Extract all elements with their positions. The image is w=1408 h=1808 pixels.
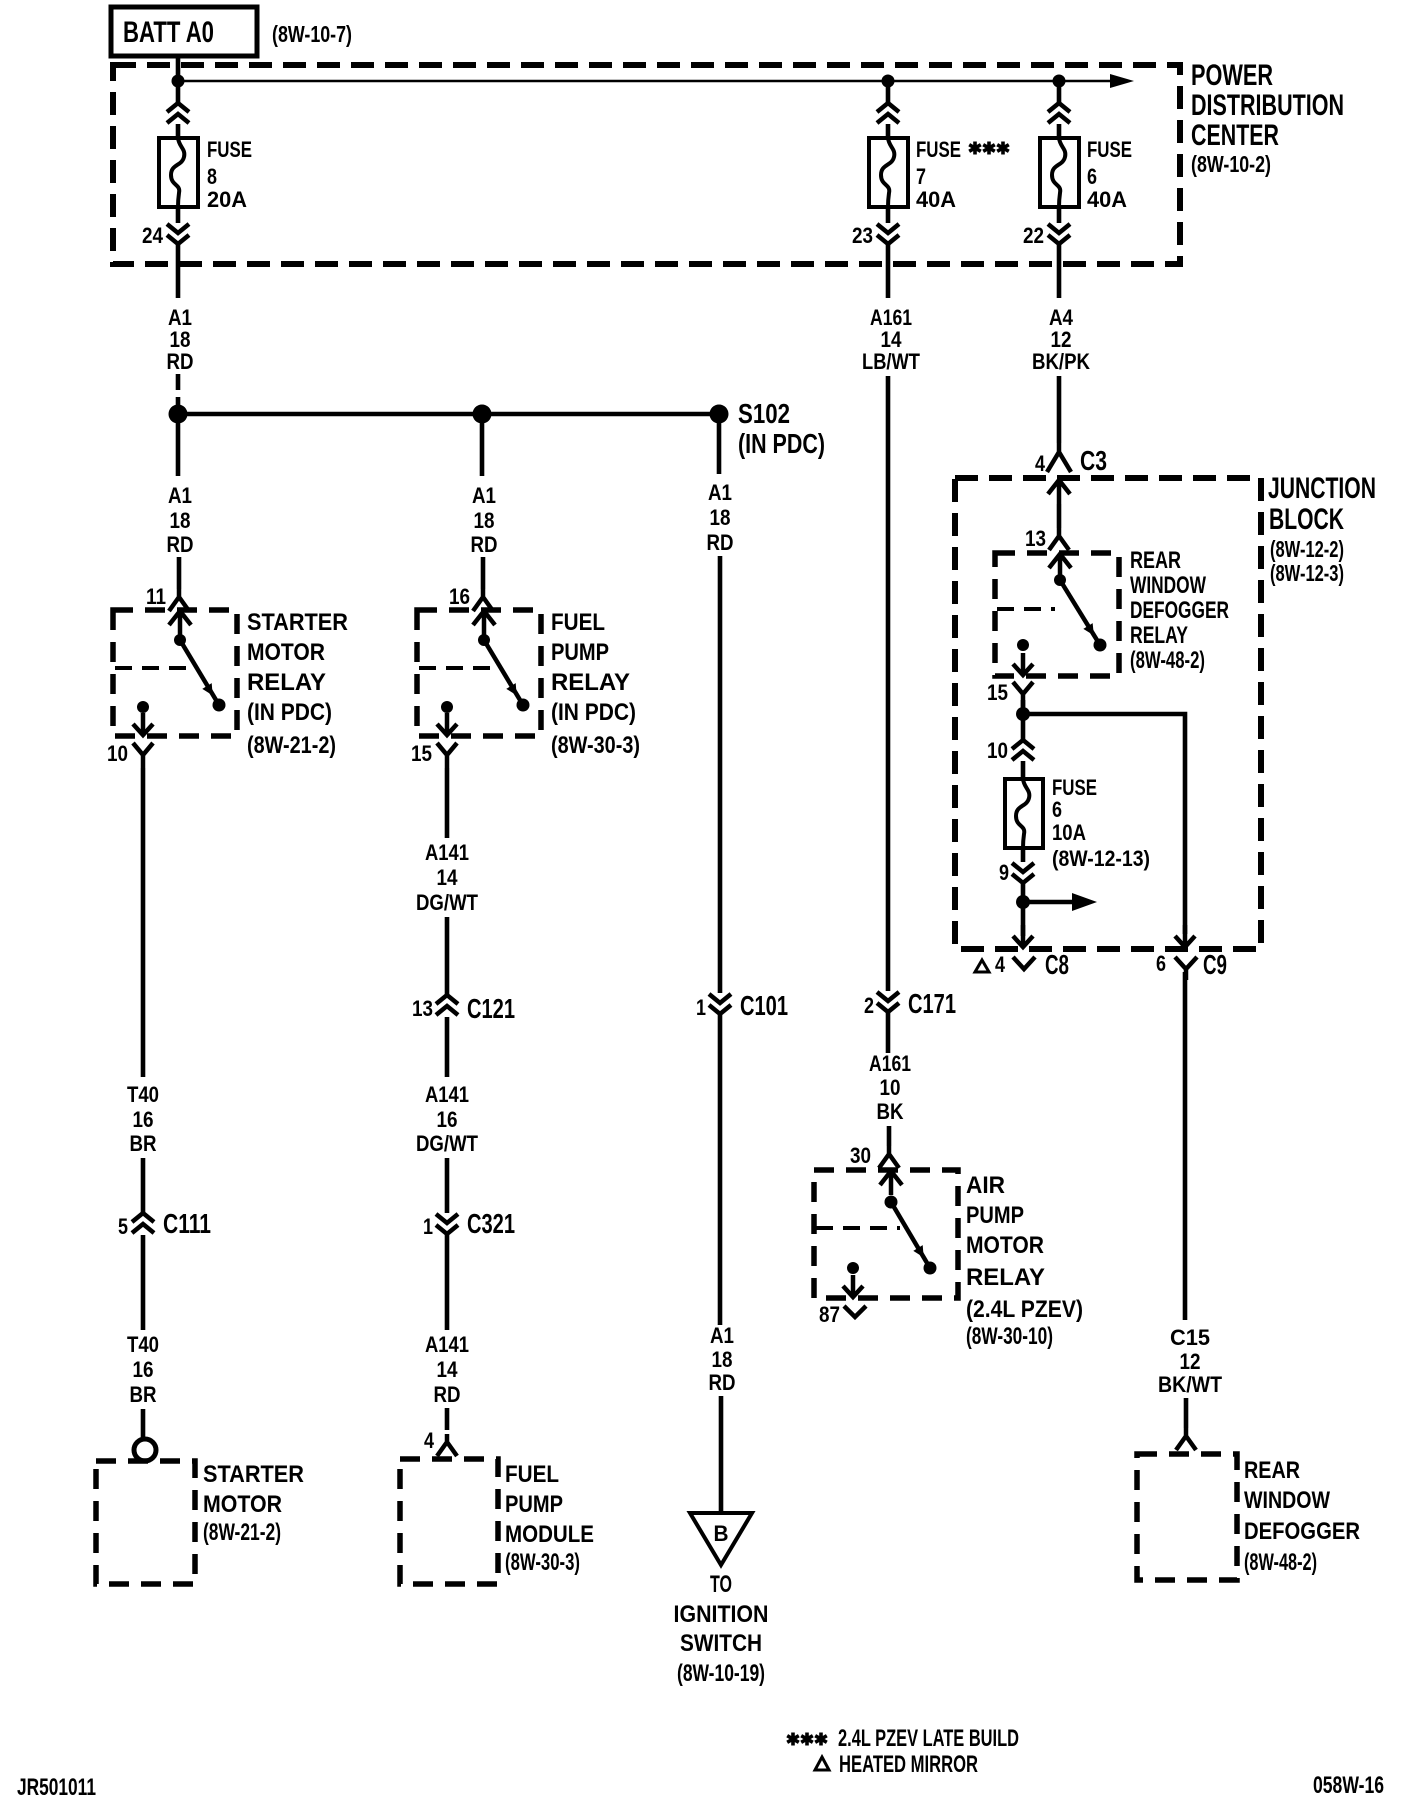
wire: branch arrow right [1023, 900, 1072, 905]
wire: defogger relay output [1021, 700, 1026, 740]
svg-text:PUMP: PUMP [966, 1202, 1024, 1229]
svg-text:PUMP: PUMP [551, 639, 609, 666]
svg-text:9: 9 [999, 860, 1009, 885]
svg-text:CENTER: CENTER [1191, 119, 1279, 152]
svg-text:FUEL: FUEL [505, 1461, 559, 1488]
wire: C121 down [445, 1017, 450, 1077]
svg-text:1: 1 [423, 1214, 433, 1239]
svg-text:(8W-10-19): (8W-10-19) [677, 1660, 765, 1687]
wire below JB fuse [1021, 848, 1026, 862]
svg-text:POWER: POWER [1191, 59, 1273, 92]
fuse F6 body [1040, 138, 1079, 207]
svg-text:BK/PK: BK/PK [1032, 349, 1090, 374]
svg-text:20A: 20A [207, 187, 247, 212]
svg-text:(8W-30-3): (8W-30-3) [551, 732, 640, 759]
connector C121 chevrons [436, 995, 458, 1015]
svg-text:4: 4 [424, 1428, 435, 1453]
connector fork pin 10 [133, 743, 153, 768]
wire: S102 to ignition feed branch [717, 423, 722, 474]
svg-text:13: 13 [1025, 526, 1046, 551]
connector C111 chevrons [132, 1213, 154, 1233]
svg-text:8: 8 [207, 164, 217, 189]
svg-text:(8W-48-2): (8W-48-2) [1244, 1549, 1317, 1576]
svg-text:SWITCH: SWITCH [680, 1630, 762, 1657]
svg-text:DEFOGGER: DEFOGGER [1130, 597, 1229, 624]
connector chevrons above fuse 7 [877, 103, 899, 123]
svg-text:A1: A1 [708, 480, 732, 505]
connector fork pin 30 [879, 1146, 899, 1168]
defogger relay NO contact node [1094, 639, 1107, 652]
wire: down to C101 [718, 556, 723, 993]
connector chevrons pin 9 [1012, 863, 1034, 883]
connector fork pin 15 [437, 743, 457, 768]
wire into fuse 6 [1057, 124, 1062, 139]
svg-text:058W-16: 058W-16 [1313, 1772, 1384, 1799]
svg-text:(IN PDC): (IN PDC) [738, 428, 825, 459]
wire: into C111 [141, 1158, 146, 1213]
heated mirror footnote triangle at C8 [975, 960, 989, 972]
svg-text:JUNCTION: JUNCTION [1268, 472, 1376, 505]
svg-text:FUEL: FUEL [551, 609, 605, 636]
svg-text:AIR: AIR [966, 1172, 1005, 1199]
svg-text:RD: RD [707, 530, 734, 555]
node: bus junction at fuse 8 [172, 75, 185, 88]
svg-text:BLOCK: BLOCK [1269, 503, 1344, 536]
svg-text:(IN PDC): (IN PDC) [247, 699, 332, 726]
air pump relay switch blade [891, 1202, 930, 1268]
node: splice junction middle [473, 405, 492, 424]
svg-text:4: 4 [1035, 451, 1046, 476]
svg-text:(8W-21-2): (8W-21-2) [247, 732, 336, 759]
svg-text:JR501011: JR501011 [17, 1774, 96, 1801]
svg-text:C8: C8 [1045, 949, 1069, 980]
svg-text:A161: A161 [869, 1051, 911, 1076]
wire: starter relay pin 10 to C111 [141, 768, 146, 1077]
fuse F8 body [159, 138, 198, 207]
svg-text:MOTOR: MOTOR [247, 639, 325, 666]
air pump relay common contact node [885, 1196, 898, 1209]
load: rear window defogger dashed box [1137, 1454, 1237, 1580]
svg-text:6: 6 [1052, 797, 1062, 822]
svg-text:RD: RD [471, 532, 498, 557]
svg-text:2.4L PZEV LATE BUILD: 2.4L PZEV LATE BUILD [838, 1725, 1019, 1752]
connector fork C3 [1047, 443, 1071, 472]
wire below fuse 8 [176, 207, 181, 223]
svg-text:WINDOW: WINDOW [1130, 572, 1206, 599]
svg-text:87: 87 [819, 1302, 840, 1327]
svg-text:16: 16 [437, 1107, 458, 1132]
svg-text:12: 12 [1180, 1349, 1201, 1374]
wire: into fuel pump relay pin 16 [481, 557, 486, 589]
connector chevrons below fuse 8 (pin 24) [167, 224, 189, 244]
C8 exit arrow at JB edge [1013, 925, 1033, 947]
relay: fuel pump relay dashed box [417, 610, 541, 736]
svg-text:16: 16 [133, 1107, 154, 1132]
svg-text:STARTER: STARTER [247, 609, 348, 636]
svg-text:10A: 10A [1052, 820, 1086, 845]
node: bus junction at fuse 7 [882, 75, 895, 88]
wire: A161 down to C171 [886, 376, 891, 991]
defogger relay coil node [1017, 639, 1029, 651]
wire: C111 down [141, 1235, 146, 1330]
wire: S102 to starter relay branch [176, 423, 181, 476]
svg-text:C9: C9 [1203, 949, 1227, 980]
wire below fuse 7 [886, 207, 891, 223]
wire: dashed continuation to splice [176, 374, 181, 410]
wire: into off-page triangle B [719, 1396, 724, 1513]
node: splice junction left [169, 405, 188, 424]
bus arrowhead [1110, 74, 1134, 88]
wire: BATT A0 drop to bus [176, 56, 181, 103]
svg-text:(8W-21-2): (8W-21-2) [203, 1519, 281, 1546]
svg-text:MOTOR: MOTOR [203, 1491, 282, 1518]
wire below fuse 6 [1057, 207, 1062, 223]
defogger relay coil output arrow pin 15 [1013, 653, 1033, 675]
connector C9 fork [1175, 957, 1197, 980]
wire: into rear defogger [1184, 1398, 1189, 1428]
svg-text:A141: A141 [425, 840, 469, 865]
fuel pump relay coil node [441, 701, 453, 713]
svg-text:15: 15 [411, 741, 432, 766]
svg-text:RELAY: RELAY [966, 1264, 1045, 1291]
fuel pump relay switch blade [484, 640, 523, 705]
wire: fuse 6 output leaving PDC [1057, 245, 1062, 298]
air pump relay coil output arrow pin 87 [843, 1275, 863, 1297]
connector chevrons pin 10 [1012, 740, 1034, 760]
svg-text:18: 18 [474, 508, 495, 533]
svg-text:10: 10 [880, 1075, 901, 1100]
air pump relay coil node [847, 1262, 859, 1274]
svg-text:1: 1 [696, 995, 706, 1020]
defogger relay pin 13 entry arrow [1049, 554, 1071, 578]
svg-text:10: 10 [107, 741, 128, 766]
connector C8 fork [1013, 957, 1035, 969]
svg-text:C171: C171 [908, 988, 956, 1019]
relay: starter motor relay dashed box [113, 610, 237, 736]
relay: rear window defogger relay dashed box [995, 553, 1119, 676]
svg-text:STARTER: STARTER [203, 1461, 304, 1488]
svg-text:40A: 40A [1087, 187, 1127, 212]
svg-text:A141: A141 [425, 1332, 469, 1357]
svg-text:15: 15 [987, 680, 1008, 705]
wire into JB fuse 6 [1021, 761, 1026, 780]
svg-text:A1: A1 [168, 483, 192, 508]
wire: fuse 7 output leaving PDC [886, 245, 891, 298]
connector chevrons above fuse 8 [167, 103, 189, 123]
svg-text:(8W-48-2): (8W-48-2) [1130, 647, 1205, 674]
wire: bus to fuse 6 [1057, 81, 1062, 104]
svg-text:(8W-30-3): (8W-30-3) [505, 1549, 580, 1576]
svg-text:T40: T40 [127, 1082, 159, 1107]
svg-text:RELAY: RELAY [1130, 622, 1188, 649]
svg-text:16: 16 [449, 584, 470, 609]
svg-text:BK: BK [877, 1099, 904, 1124]
svg-text:DISTRIBUTION: DISTRIBUTION [1191, 89, 1344, 122]
power distribution center dashed box [113, 65, 1180, 264]
fuel pump relay NO contact node [517, 699, 530, 712]
junction block C3 entry arrow [1048, 480, 1070, 504]
footnote: 2.4L PZEV late build stars [787, 1733, 799, 1746]
svg-text:C321: C321 [467, 1208, 515, 1239]
starter relay internal divider [115, 666, 196, 670]
wire: into C121 [445, 917, 450, 995]
svg-text:WINDOW: WINDOW [1244, 1487, 1330, 1514]
svg-text:10: 10 [987, 738, 1008, 763]
svg-text:18: 18 [170, 508, 191, 533]
wire into fuse 7 [886, 124, 891, 139]
svg-text:RD: RD [709, 1370, 736, 1395]
svg-text:24: 24 [142, 223, 164, 248]
svg-text:C111: C111 [163, 1208, 211, 1239]
svg-text:C3: C3 [1080, 445, 1107, 476]
wire: fuse 8 output leaving PDC [176, 245, 181, 298]
starter relay switch blade [180, 640, 219, 705]
connector fork pin 13 [1049, 528, 1069, 550]
svg-text:C101: C101 [740, 990, 788, 1021]
svg-text:MODULE: MODULE [505, 1521, 594, 1548]
svg-text:18: 18 [712, 1347, 733, 1372]
svg-text:14: 14 [437, 1357, 459, 1382]
svg-text:RELAY: RELAY [551, 669, 630, 696]
svg-text:RD: RD [434, 1382, 461, 1407]
wire into fuse 8 [176, 124, 181, 139]
svg-text:11: 11 [146, 584, 166, 609]
svg-text:6: 6 [1156, 951, 1166, 976]
svg-text:(IN PDC): (IN PDC) [551, 699, 636, 726]
fuel pump relay internal divider [419, 666, 500, 670]
svg-text:T40: T40 [127, 1332, 159, 1357]
node: branch to other circuits [1016, 895, 1030, 909]
svg-text:LB/WT: LB/WT [862, 349, 920, 374]
node S102 (IN PDC) [710, 405, 729, 424]
svg-text:5: 5 [118, 1214, 128, 1239]
svg-text:30: 30 [850, 1143, 871, 1168]
air pump relay NO contact node [924, 1262, 937, 1275]
off-page connector triangle B [690, 1513, 752, 1565]
wire: C9 down to rear defogger [1183, 972, 1188, 1320]
load: fuel pump module dashed box [400, 1459, 498, 1584]
wire: into air pump relay pin 30 [887, 1126, 892, 1146]
wire: fuel pump relay pin 15 down [445, 768, 450, 838]
starter relay common contact node [174, 634, 186, 646]
fuel pump relay common contact node [478, 634, 490, 646]
svg-text:DEFOGGER: DEFOGGER [1244, 1518, 1360, 1545]
svg-text:IGNITION: IGNITION [674, 1601, 769, 1628]
connector fork pin 15 (JB) [1013, 682, 1033, 707]
svg-text:PUMP: PUMP [505, 1491, 563, 1518]
wire: to starter motor terminal [141, 1409, 146, 1439]
svg-text:22: 22 [1023, 223, 1044, 248]
starter relay pin 11 entry arrow [169, 611, 191, 635]
svg-text:16: 16 [133, 1357, 154, 1382]
svg-text:BATT A0: BATT A0 [123, 16, 214, 49]
junction block dashed box [955, 478, 1261, 949]
wire: S102 to fuel pump relay branch [480, 423, 485, 476]
fuel pump relay coil output arrow pin 15 [437, 713, 457, 735]
wire: C3 to defogger relay [1057, 504, 1062, 528]
connector chevrons below fuse 7 (pin 23) [877, 224, 899, 244]
svg-text:DG/WT: DG/WT [416, 890, 478, 915]
wire: C171 to air pump relay [886, 1013, 891, 1053]
svg-text:BR: BR [130, 1382, 157, 1407]
svg-text:2: 2 [864, 993, 874, 1018]
fuse: junction block fuse 6 10A body [1005, 779, 1043, 848]
svg-text:(2.4L PZEV): (2.4L PZEV) [966, 1296, 1083, 1323]
svg-text:REAR: REAR [1130, 547, 1181, 574]
svg-text:TO: TO [710, 1571, 732, 1598]
wire: C321 to fuel pump module [445, 1235, 450, 1330]
svg-text:DG/WT: DG/WT [416, 1131, 478, 1156]
svg-text:(8W-12-2): (8W-12-2) [1270, 536, 1344, 562]
wire: A4 down to C3 [1057, 376, 1062, 443]
svg-text:FUSE: FUSE [1087, 137, 1132, 162]
connector C321 chevrons [436, 1214, 458, 1234]
wire: PDC internal bus from BATT [178, 80, 1112, 83]
svg-text:14: 14 [437, 865, 459, 890]
svg-text:6: 6 [1087, 164, 1097, 189]
svg-text:7: 7 [916, 164, 926, 189]
defogger relay internal divider [997, 607, 1055, 611]
svg-text:13: 13 [412, 996, 433, 1021]
svg-text:HEATED MIRROR: HEATED MIRROR [839, 1751, 978, 1778]
starter relay NO contact node [213, 699, 226, 712]
starter relay coil node [137, 701, 149, 713]
svg-text:(8W-12-13): (8W-12-13) [1052, 846, 1150, 871]
starter relay coil output arrow pin 10 [133, 713, 153, 735]
svg-text:A1: A1 [472, 483, 496, 508]
connector fork at fuel pump module [437, 1434, 457, 1456]
svg-text:18: 18 [710, 505, 731, 530]
svg-text:A1: A1 [710, 1323, 734, 1348]
svg-text:23: 23 [852, 223, 873, 248]
connector C101 chevrons [709, 994, 731, 1014]
starter motor terminal ring [134, 1439, 156, 1461]
svg-text:MOTOR: MOTOR [966, 1232, 1044, 1259]
wire: bus to fuse 7 [886, 81, 891, 104]
svg-text:BR: BR [130, 1131, 157, 1156]
svg-text:A141: A141 [425, 1082, 469, 1107]
svg-text:(8W-30-10): (8W-30-10) [966, 1323, 1053, 1350]
C9 exit arrow at JB edge [1175, 925, 1195, 947]
fuel pump relay pin 16 entry arrow [473, 611, 495, 635]
defogger relay switch blade [1060, 580, 1100, 645]
svg-text:RELAY: RELAY [247, 669, 326, 696]
svg-text:B: B [714, 1521, 729, 1546]
connector C171 chevrons [877, 992, 899, 1012]
fuse F7 body [869, 138, 908, 207]
air pump relay pin 30 entry arrow [880, 1171, 902, 1195]
svg-text:FUSE: FUSE [916, 137, 961, 162]
wire: JB fuse output down to C8 [1021, 884, 1026, 936]
svg-text:40A: 40A [916, 187, 956, 212]
connector fork at rear defogger [1176, 1428, 1196, 1450]
svg-text:C15: C15 [1170, 1325, 1210, 1350]
wire: into fuel pump module pin 4 [445, 1408, 450, 1430]
svg-text:RD: RD [167, 349, 194, 374]
svg-text:S102: S102 [738, 398, 790, 429]
relay: air pump motor relay dashed box [814, 1170, 958, 1298]
wire: into starter relay pin 11 [177, 557, 182, 589]
svg-text:BK/WT: BK/WT [1158, 1372, 1222, 1397]
svg-text:4: 4 [995, 952, 1006, 977]
connector fork pin 87 [844, 1306, 866, 1317]
wire: into C321 [445, 1158, 450, 1213]
svg-text:(8W-10-2): (8W-10-2) [1191, 151, 1271, 177]
node: branch to C9 [1016, 707, 1030, 721]
air pump relay internal divider [816, 1226, 900, 1230]
connector chevrons above fuse 6 [1048, 103, 1070, 123]
svg-text:FUSE: FUSE [207, 137, 252, 162]
svg-text:REAR: REAR [1244, 1457, 1300, 1484]
wire: branch across to C9 drop [1023, 714, 1185, 934]
connector fork pin 16 [473, 589, 493, 611]
svg-text:C121: C121 [467, 993, 515, 1024]
connector chevrons below fuse 6 (pin 22) [1048, 224, 1070, 244]
wire: C101 down to ignition switch lead [718, 1015, 723, 1325]
wire: splice bus S102 [178, 412, 719, 417]
load: starter motor dashed box [96, 1461, 195, 1584]
defogger relay common contact node [1054, 574, 1066, 586]
battery feed BATT A0 box [111, 7, 257, 56]
svg-text:(8W-12-3): (8W-12-3) [1270, 560, 1344, 586]
svg-text:RD: RD [167, 532, 194, 557]
footnote: heated mirror triangle [815, 1757, 829, 1770]
node: bus junction at fuse 6 [1053, 75, 1066, 88]
svg-text:(8W-10-7): (8W-10-7) [272, 21, 352, 47]
connector fork pin 11 [169, 589, 189, 611]
